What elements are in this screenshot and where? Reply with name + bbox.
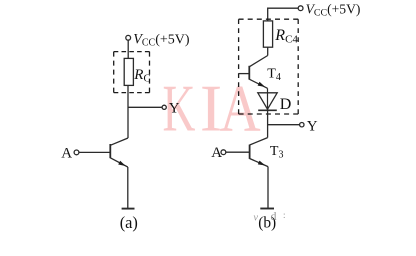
svg-text:K: K xyxy=(163,72,196,146)
transistor Q1 base lead xyxy=(79,151,110,153)
svg-text:VCC(+5V): VCC(+5V) xyxy=(306,1,361,18)
transistor Q1 collector xyxy=(110,138,128,145)
svg-text:T4: T4 xyxy=(267,67,281,84)
dashed box around RC4 T4 D (b) xyxy=(239,19,299,114)
terminal A (a) xyxy=(74,150,79,155)
transistor T3 base bar xyxy=(249,145,251,159)
ground (b) xyxy=(260,208,274,210)
dashed box around RC (a) xyxy=(114,52,150,93)
svg-text:D: D xyxy=(280,96,292,113)
terminal VCC (a) xyxy=(126,35,131,40)
watermark letter K xyxy=(163,72,196,146)
transistor T3 emitter xyxy=(250,159,268,167)
wire emitter to ground (a) xyxy=(127,167,129,208)
wire emitter to diode xyxy=(267,88,269,110)
wire diode to Y node xyxy=(267,110,269,137)
svg-text:A: A xyxy=(220,72,261,145)
wire resistor to T4 collector xyxy=(267,47,269,55)
watermark letter I xyxy=(200,72,222,146)
transistor T4 emitter xyxy=(249,79,267,88)
svg-text:A: A xyxy=(211,145,222,161)
svg-text:T3: T3 xyxy=(270,144,284,161)
terminal A (b) xyxy=(221,150,226,155)
transistor T4 collector xyxy=(249,56,267,67)
transistor Q1 emitter arrow xyxy=(118,161,126,166)
wire output Y (b) xyxy=(268,124,300,126)
diode D cathode bar xyxy=(258,109,277,111)
transistor Q1 base bar xyxy=(109,144,111,158)
watermark letter A xyxy=(220,72,261,145)
svg-text::: : xyxy=(283,210,286,220)
wire VCC to resistor (a) xyxy=(127,40,129,58)
svg-text:VCC(+5V): VCC(+5V) xyxy=(133,31,190,48)
svg-text:v: v xyxy=(254,213,259,224)
transistor Q1 emitter xyxy=(110,158,128,167)
transistor T3 emitter arrow xyxy=(258,161,266,166)
svg-text:RC: RC xyxy=(133,67,150,84)
resistor RC4 xyxy=(263,21,272,47)
transistor T3 collector xyxy=(250,138,268,145)
resistor RC (a) xyxy=(124,58,133,85)
transistor T4 emitter arrow xyxy=(258,82,266,87)
diode D anode triangle xyxy=(258,93,277,109)
faint watermark remnant text near ground (b) xyxy=(254,209,286,224)
terminal Y (a) xyxy=(162,105,166,109)
ground (a) xyxy=(122,208,135,210)
svg-text:(a): (a) xyxy=(120,213,138,232)
terminal VCC (b) xyxy=(298,6,303,11)
svg-text:Y: Y xyxy=(307,119,318,135)
terminal Y (b) xyxy=(300,123,304,127)
transistor T4 base bar xyxy=(248,66,250,80)
wire resistor to collector node (a) xyxy=(127,85,129,138)
transistor T3 base lead xyxy=(226,151,250,153)
transistor T4 base lead xyxy=(239,73,250,75)
wire VCC feed (b) xyxy=(268,8,299,21)
wire emitter to ground (b) xyxy=(267,167,269,208)
svg-text:A: A xyxy=(61,145,72,161)
svg-text:RC4: RC4 xyxy=(274,27,298,45)
svg-text:d: d xyxy=(271,209,277,223)
wire output Y (a) xyxy=(128,106,162,108)
